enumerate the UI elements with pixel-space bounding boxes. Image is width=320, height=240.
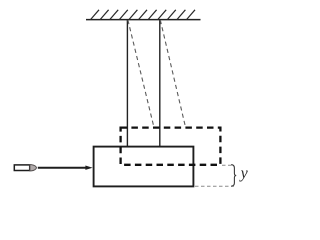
block M initial position (solid rectangle) bbox=[94, 147, 194, 187]
string 2 displaced (right, dashed slanted) bbox=[160, 20, 185, 128]
bullet velocity arrow shaft bbox=[38, 167, 87, 169]
brace for height y bbox=[231, 165, 236, 187]
ceiling bbox=[86, 19, 201, 21]
extension line from displaced block bottom bbox=[222, 164, 234, 166]
extension line from initial block bottom bbox=[195, 185, 234, 187]
string 1 displaced (left, dashed slanted) bbox=[128, 20, 154, 128]
string 1 initial (left, vertical) bbox=[126, 20, 128, 147]
ceiling hatching bbox=[91, 10, 196, 20]
block M displaced position (thick dashed rectangle) bbox=[121, 128, 221, 165]
svg-text:y: y bbox=[239, 165, 249, 182]
string 2 initial (right, vertical) bbox=[159, 20, 161, 147]
bullet velocity arrowhead bbox=[85, 166, 92, 170]
bullet casing bbox=[14, 165, 29, 171]
bullet nose bbox=[30, 165, 37, 171]
